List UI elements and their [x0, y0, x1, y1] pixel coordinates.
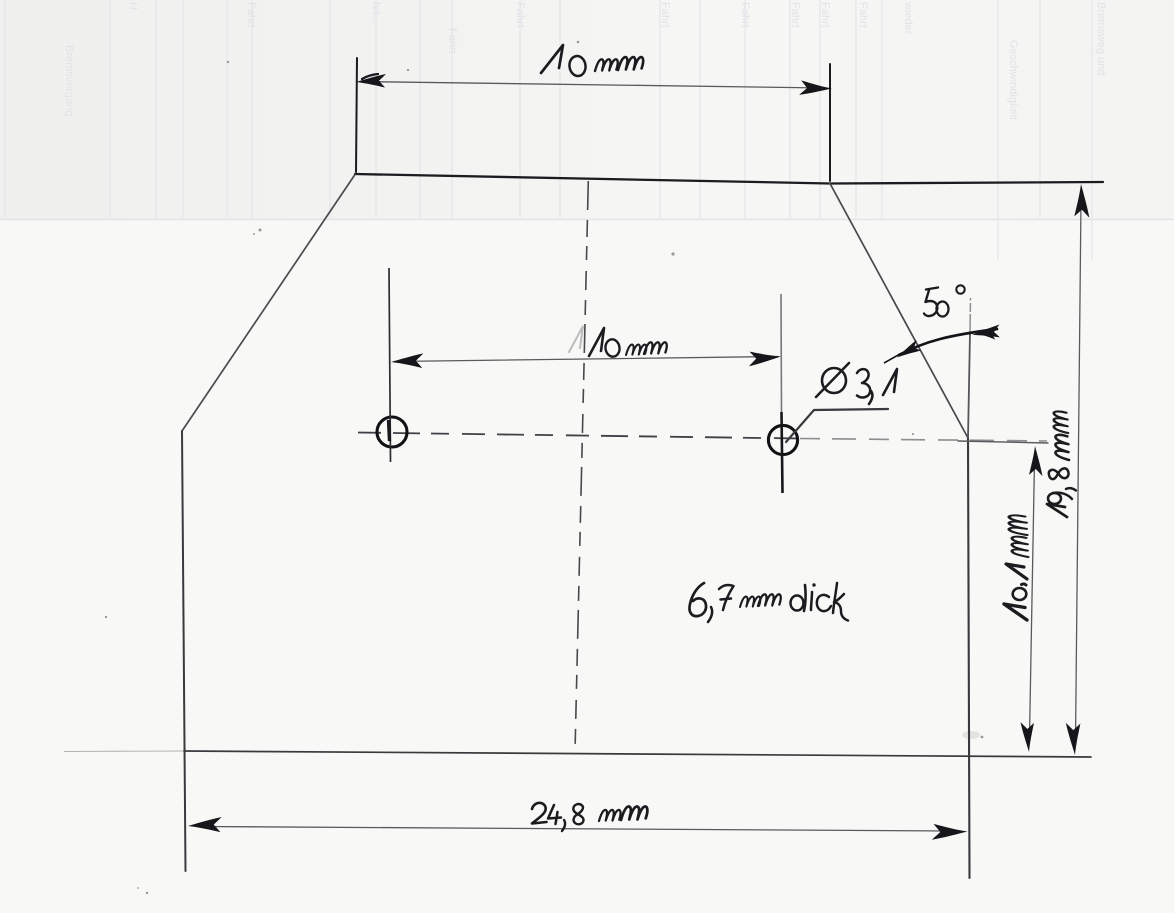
angle arc with arrows — [899, 329, 997, 355]
part outline: bottom edge faint left overshoot — [64, 750, 184, 753]
dimension 10mm holes: right arrowhead — [748, 351, 781, 367]
label diameter: O-slash circle — [822, 368, 846, 393]
label diameter: comma — [869, 391, 872, 404]
label 24,8mm: mm — [599, 810, 621, 821]
dimension 19,8mm: dimension line — [1076, 200, 1082, 740]
horizontal centre line (dashed, faint right part) — [800, 439, 1047, 442]
label diameter: O-slash stroke — [816, 363, 849, 397]
hole H1 (left) — [377, 417, 407, 447]
dimension 10,1mm: top arrowhead — [1029, 446, 1043, 476]
svg-text:Fahrt: Fahrt — [857, 2, 869, 28]
note: mm — [740, 597, 760, 607]
dimension 24,8mm: dimension line — [200, 827, 950, 832]
hole H2 (right) — [768, 425, 797, 454]
dimension 10mm holes: dimension line — [394, 357, 778, 362]
pencil specks — [105, 41, 984, 895]
dimension 10mm top: dimension line — [360, 82, 826, 89]
angle reference extension line — [969, 298, 972, 333]
svg-text:hrt...: hrt... — [370, 2, 382, 24]
hole H1 centre mark vertical — [389, 268, 391, 462]
label 24,8mm: comma — [562, 820, 565, 831]
label 10mm holes: m — [644, 342, 667, 354]
label 10mm holes: digit 0 — [604, 338, 620, 357]
label 10mm top: m — [595, 59, 618, 71]
bleed-through table band at top of scan — [0, 0, 1, 1]
angle arc left arrowhead — [894, 340, 922, 362]
note: k — [833, 583, 848, 621]
bleed-through mirrored text traces — [63, 1, 1107, 120]
svg-text:wieder: wieder — [902, 1, 914, 35]
dimension 10mm top: right extension line — [829, 64, 831, 181]
note: c — [817, 595, 831, 611]
dimension 24,8mm: left arrowhead — [188, 817, 222, 832]
label 24,8mm: digit 8 — [573, 804, 583, 824]
label 10mm top: digit 1 — [541, 45, 563, 73]
label 19,8mm rotated — [1047, 411, 1076, 517]
note: i — [811, 592, 812, 610]
note: digit 7 — [719, 585, 734, 610]
dimension 10,1mm: extension line at hole axis height — [958, 441, 1048, 443]
dimension 19,8mm: bottom arrowhead — [1066, 723, 1081, 756]
label 10,1mm rotated — [1004, 515, 1028, 620]
dimension 10mm top: left extension line — [356, 58, 357, 172]
label 50 degrees: digit 0 — [937, 302, 949, 317]
bleed-through band bottom rule — [0, 219, 1174, 221]
svg-text:Fahrt: Fahrt — [446, 28, 458, 54]
part outline: top edge (extended right as extension line for 19,8) — [355, 174, 1103, 184]
label 10mm top: digit 0 — [568, 55, 587, 77]
angle arc right arrowhead — [971, 324, 1001, 340]
label diameter: digit 3 — [857, 369, 870, 397]
svg-text:H: H — [127, 2, 139, 10]
svg-text:Bremsvorgang: Bremsvorgang — [63, 45, 75, 117]
label 50 degrees: degree circle — [956, 285, 964, 293]
dimension 10,1mm: bottom arrowhead — [1020, 722, 1034, 752]
label 24,8mm: digit 2 — [532, 803, 547, 824]
horizontal centre line through holes (dashed, dark part) — [358, 433, 800, 439]
label 10mm holes: m — [626, 345, 646, 355]
label 50 degrees: digit 5 — [924, 288, 938, 317]
svg-text:Fahrt: Fahrt — [514, 2, 526, 28]
svg-text:Bremsweg und: Bremsweg und — [1095, 2, 1107, 75]
svg-text:Fahrt: Fahrt — [739, 2, 751, 28]
dimension 10mm holes: left arrowhead — [391, 353, 423, 368]
part outline: bottom edge (extended right for 19,8/10,1 extension) — [184, 751, 1091, 757]
svg-text:Fahrt: Fahrt — [659, 2, 671, 28]
hole H2 centre mark vertical (faint above) — [780, 294, 783, 412]
dimension 10,1mm: dimension line — [1030, 460, 1035, 737]
part outline: left chamfer edge — [182, 175, 355, 432]
angle arc left tail — [884, 354, 900, 363]
hole H2 centre mark vertical (dark through and below) — [782, 412, 783, 493]
label 10mm holes: digit 1 — [589, 328, 604, 356]
dimension 24,8mm: right arrowhead — [932, 824, 968, 841]
label 10mm holes: faint pencil 1 — [569, 326, 583, 352]
svg-text:Geschwindigkeit: Geschwindigkeit — [1007, 40, 1019, 120]
svg-text:Fahrt: Fahrt — [245, 2, 257, 28]
svg-text:Fahrt: Fahrt — [819, 2, 831, 28]
leader line for hole diameter — [786, 409, 888, 442]
part outline: right chamfer edge — [830, 184, 968, 439]
dimension 19,8mm: top arrowhead — [1074, 184, 1090, 218]
part outline: left edge (extended below for 24,8 extension) — [182, 431, 186, 871]
label 10mm top: m — [618, 57, 643, 70]
svg-text:Fahrt: Fahrt — [789, 2, 801, 28]
part outline: right edge (extended below for 24,8 extension) — [968, 438, 970, 878]
hole H1 ink blob — [389, 420, 390, 441]
dimension 10mm top: right arrowhead — [799, 80, 832, 97]
dimension 10mm top: left arrowhead — [356, 74, 386, 88]
vertical centre line (dashed) — [575, 181, 588, 752]
note: d — [791, 596, 804, 611]
note 6,7 mm dick: digit 6 — [689, 583, 706, 616]
bleed-through column lines — [5, 0, 1092, 260]
label 24,8mm: digit 4 — [548, 805, 561, 824]
label diameter: digit 1 — [883, 369, 897, 395]
note: comma — [708, 607, 712, 622]
